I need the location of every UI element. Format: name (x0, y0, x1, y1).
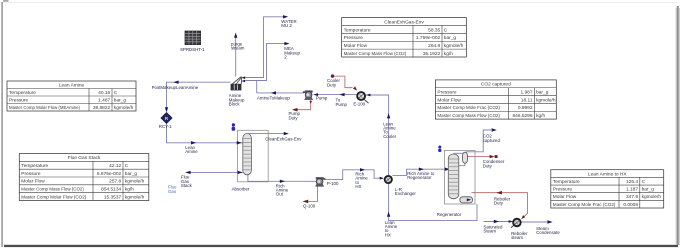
svg-text:Pressure: Pressure (9, 97, 29, 103)
svg-text:Master Comp Mass Flow (CO2): Master Comp Mass Flow (CO2) (344, 51, 407, 57)
svg-text:35.1922: 35.1922 (423, 51, 441, 57)
svg-text:Q-100: Q-100 (303, 203, 316, 208)
svg-text:SPRDSHT-1: SPRDSHT-1 (180, 47, 205, 52)
svg-text:Pump: Pump (316, 95, 328, 100)
svg-text:bar_g: bar_g (444, 35, 457, 41)
svg-text:1.487: 1.487 (98, 97, 110, 103)
svg-text:Rich Amine toRegenerator: Rich Amine toRegenerator (407, 171, 435, 180)
svg-text:18.11: 18.11 (521, 97, 533, 103)
svg-text:kgmole/h: kgmole/h (125, 194, 145, 200)
svg-text:Molar Flow: Molar Flow (21, 179, 45, 185)
svg-text:P-100: P-100 (327, 181, 339, 186)
svg-text:bar_g: bar_g (114, 97, 127, 103)
svg-text:C: C (114, 90, 118, 96)
svg-text:Absorber: Absorber (232, 187, 250, 192)
svg-text:CleanExhGas-Env: CleanExhGas-Env (265, 137, 302, 142)
svg-text:0.0008: 0.0008 (623, 202, 638, 208)
svg-text:Master Comp Mole Frac (CO2): Master Comp Mole Frac (CO2) (437, 105, 500, 111)
svg-text:Master Comp Mole Frac (CO2): Master Comp Mole Frac (CO2) (553, 202, 616, 208)
svg-text:Pressure: Pressure (21, 171, 41, 177)
svg-text:Regenerator: Regenerator (437, 212, 462, 217)
svg-text:38.8822: 38.8822 (93, 105, 111, 111)
svg-text:C: C (642, 179, 646, 185)
svg-text:Temperature: Temperature (553, 179, 580, 185)
svg-text:bar_g: bar_g (536, 89, 549, 95)
svg-text:kg/h: kg/h (536, 113, 545, 119)
svg-text:Flue Gas Stack: Flue Gas Stack (68, 155, 101, 161)
svg-text:R: R (165, 116, 169, 122)
svg-text:Temperature: Temperature (344, 27, 371, 33)
svg-text:Molar Flow: Molar Flow (553, 194, 577, 200)
svg-text:bar_g: bar_g (125, 171, 138, 177)
svg-text:C: C (125, 163, 129, 169)
svg-text:1.187: 1.187 (626, 187, 638, 193)
svg-text:Molar Flow: Molar Flow (437, 97, 461, 103)
svg-text:0.9992: 0.9992 (518, 105, 533, 111)
svg-text:126.4: 126.4 (626, 179, 638, 185)
svg-text:CleanExhGas-Env: CleanExhGas-Env (384, 19, 424, 25)
svg-text:42.12: 42.12 (109, 163, 121, 169)
svg-text:854.5134: 854.5134 (101, 187, 121, 193)
svg-text:40.16: 40.16 (98, 90, 110, 96)
svg-text:PostMakeupLeanAmine: PostMakeupLeanAmine (152, 85, 199, 90)
svg-text:Lean Amine to HX: Lean Amine to HX (588, 171, 627, 177)
svg-text:Master Comp Molar Flow (MEAmin: Master Comp Molar Flow (MEAmine) (9, 105, 80, 111)
svg-text:6.875e-002: 6.875e-002 (97, 171, 122, 177)
svg-text:Master Comp Molar Flow (CO2): Master Comp Molar Flow (CO2) (21, 194, 86, 200)
svg-text:347.9: 347.9 (626, 194, 638, 200)
svg-text:kgmole/h: kgmole/h (444, 43, 464, 49)
svg-text:E-100: E-100 (353, 102, 365, 107)
svg-text:58.35: 58.35 (428, 27, 440, 33)
svg-text:1.987: 1.987 (520, 89, 532, 95)
svg-text:264.8: 264.8 (428, 43, 440, 49)
svg-text:kgmole/h: kgmole/h (125, 179, 145, 185)
svg-text:kgmole/h: kgmole/h (536, 97, 556, 103)
svg-text:1.759e-002: 1.759e-002 (416, 35, 441, 41)
svg-text:FlueGas: FlueGas (168, 184, 177, 194)
svg-text:Temperature: Temperature (9, 90, 36, 96)
svg-text:Master Comp Mass Flow (CO2): Master Comp Mass Flow (CO2) (21, 187, 84, 193)
svg-text:Pressure: Pressure (553, 187, 573, 193)
svg-text:Molar Flow: Molar Flow (344, 43, 368, 49)
svg-text:kgmole/h: kgmole/h (114, 105, 134, 111)
svg-text:bar_g: bar_g (642, 187, 655, 193)
svg-text:846.5298: 846.5298 (512, 113, 532, 119)
svg-text:CO2 captured: CO2 captured (481, 82, 511, 88)
svg-text:257.8: 257.8 (109, 179, 121, 185)
svg-text:Master Comp Mass Flow (CO2): Master Comp Mass Flow (CO2) (437, 113, 500, 119)
svg-text:Pressure: Pressure (437, 89, 457, 95)
svg-text:AmineToMakeup: AmineToMakeup (257, 95, 290, 100)
svg-text:kg/h: kg/h (444, 51, 453, 57)
svg-text:15.3537: 15.3537 (104, 194, 122, 200)
svg-text:C: C (444, 27, 448, 33)
svg-text:kg/h: kg/h (125, 187, 134, 193)
svg-text:Lean Amine: Lean Amine (59, 82, 85, 88)
svg-text:kgmole/h: kgmole/h (642, 194, 662, 200)
svg-text:RCY-1: RCY-1 (159, 124, 172, 129)
svg-text:Pressure: Pressure (344, 35, 364, 41)
svg-text:Temperature: Temperature (21, 163, 48, 169)
